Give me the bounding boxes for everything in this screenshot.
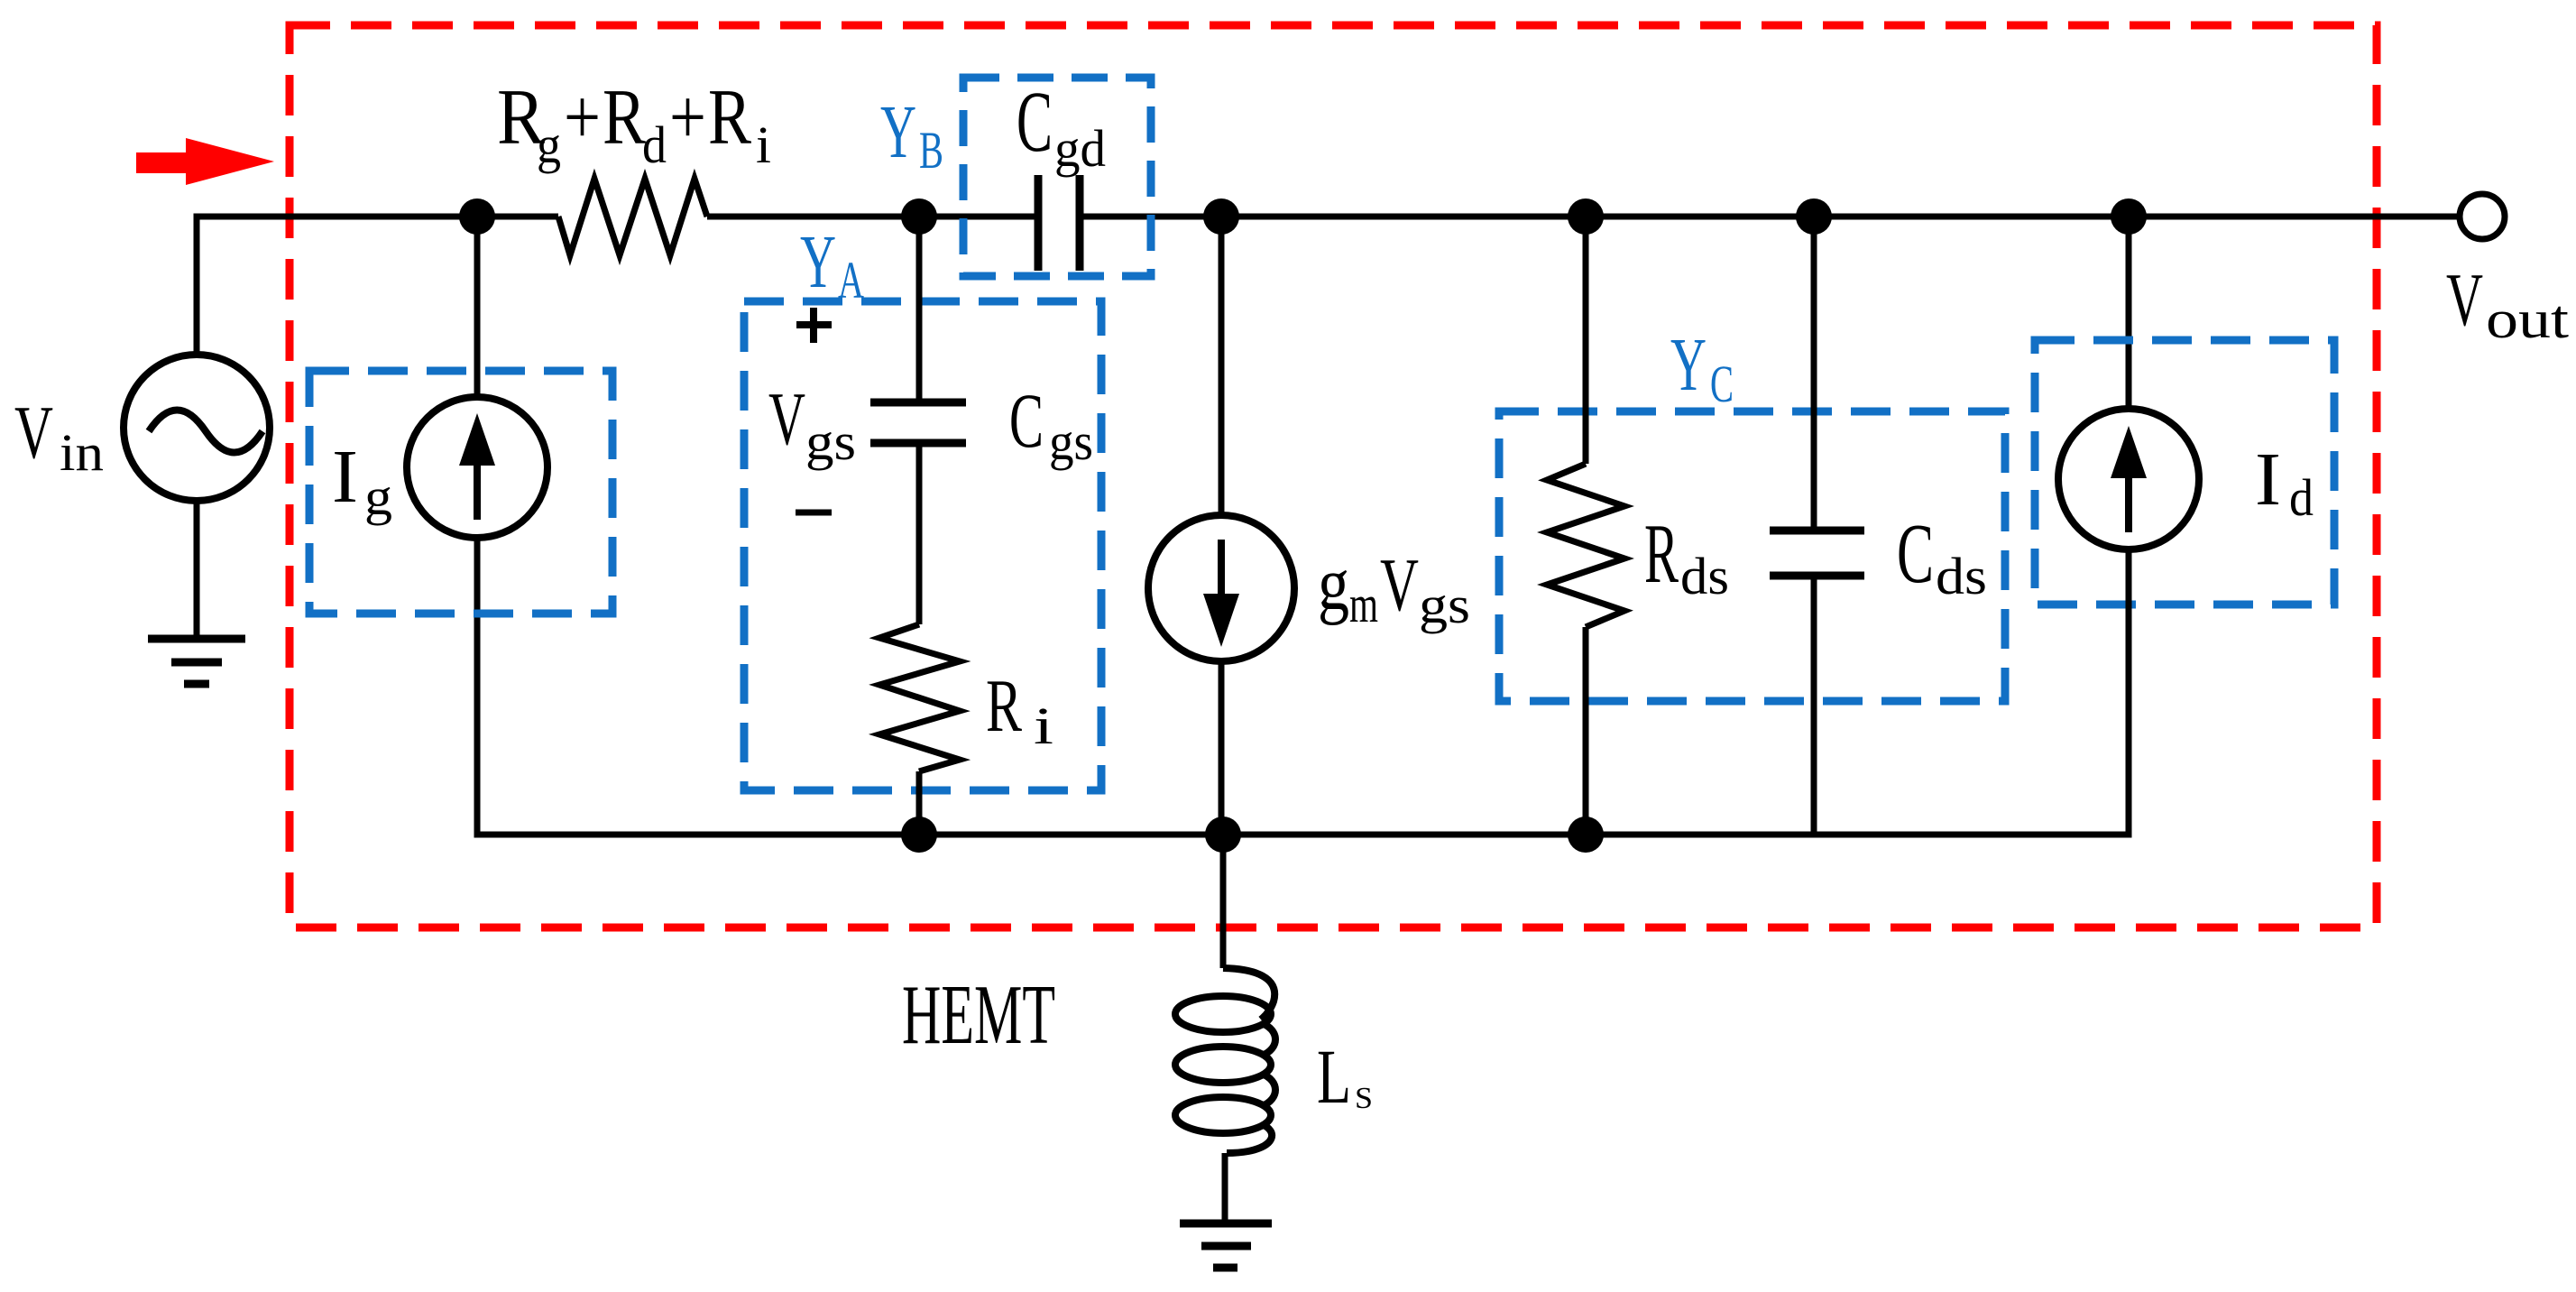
svg-text:C: C <box>1017 73 1053 170</box>
resistor Ri <box>879 624 960 771</box>
svg-text:Y: Y <box>1670 323 1707 407</box>
blue dashed box YA <box>744 301 1101 790</box>
svg-text:Y: Y <box>880 90 916 174</box>
svg-text:ds: ds <box>1936 547 1987 605</box>
svg-text:g: g <box>1318 542 1349 626</box>
svg-text:i: i <box>1034 697 1053 755</box>
svg-text:gd: gd <box>1054 119 1106 178</box>
svg-text:I: I <box>2255 438 2281 521</box>
capacitor Cds <box>1770 531 1864 576</box>
node Rds top <box>1568 198 1604 235</box>
minus sign <box>796 510 832 516</box>
svg-text:S: S <box>1355 1082 1373 1115</box>
source Vin <box>124 355 270 501</box>
svg-text:C: C <box>1710 355 1734 413</box>
current source gmVgs <box>1148 515 1294 661</box>
resistor Rg+Rd+Ri <box>558 179 707 255</box>
svg-text:g: g <box>364 467 392 526</box>
blue dashed box YC <box>1499 411 2005 701</box>
node Id top <box>2111 198 2147 235</box>
svg-text:ds: ds <box>1680 547 1729 605</box>
svg-text:V: V <box>2446 258 2483 342</box>
svg-text:I: I <box>332 435 358 519</box>
plus sign <box>796 308 832 343</box>
svg-text:Y: Y <box>800 220 836 304</box>
bottom rail wire <box>477 549 2129 835</box>
terminal Vout <box>2460 194 2505 239</box>
node rail gm/Ls <box>1205 817 1241 853</box>
svg-text:g: g <box>537 115 561 174</box>
svg-text:R: R <box>986 664 1022 748</box>
svg-text:d: d <box>642 115 667 174</box>
capacitor Cgd <box>1038 175 1080 271</box>
wire Ls to ground <box>1222 1153 1228 1223</box>
current source Id <box>2058 409 2199 549</box>
blue dashed box Cgd <box>963 78 1151 276</box>
ground (Ls) <box>1180 1223 1272 1268</box>
svg-text:R: R <box>708 74 751 161</box>
node Cds top <box>1796 198 1832 235</box>
wire gm branch top <box>1219 217 1225 515</box>
svg-text:i: i <box>756 115 771 174</box>
wire Vin vertical <box>194 500 200 639</box>
svg-text:R: R <box>603 74 646 161</box>
svg-text:in: in <box>60 423 104 482</box>
node rail Ri <box>901 817 937 853</box>
svg-text:C: C <box>1897 507 1934 601</box>
wire Cgs to Ri <box>916 443 923 624</box>
svg-text:R: R <box>1644 507 1679 601</box>
wire gm branch bottom <box>1219 661 1225 835</box>
wire Id top <box>2126 217 2132 409</box>
resistor Rds <box>1547 464 1624 627</box>
wire YB down <box>916 217 923 401</box>
wire top main <box>197 217 2460 355</box>
node A top-left <box>459 198 495 235</box>
blue dashed box Ig <box>309 371 612 614</box>
svg-text:V: V <box>1380 543 1419 627</box>
svg-text:V: V <box>14 391 53 475</box>
red dashed boundary box <box>290 25 2377 927</box>
ground (Vin) <box>148 639 245 684</box>
svg-text:HEMT: HEMT <box>902 968 1055 1062</box>
svg-text:+: + <box>564 74 601 161</box>
capacitor Cgs <box>870 402 966 443</box>
svg-text:d: d <box>2289 468 2314 527</box>
wire Rds top <box>1583 217 1589 464</box>
node rail Rds <box>1568 817 1604 853</box>
svg-text:gs: gs <box>1419 576 1470 634</box>
wire Cds top <box>1811 217 1817 527</box>
svg-text:out: out <box>2486 290 2569 349</box>
current source Ig <box>407 397 547 538</box>
svg-text:gs: gs <box>1049 412 1093 471</box>
svg-text:A: A <box>838 251 864 309</box>
node YB <box>901 198 937 235</box>
wire Ri to rail <box>916 771 923 835</box>
svg-text:L: L <box>1317 1033 1351 1120</box>
inductor Ls <box>1175 968 1275 1153</box>
wire Ls top <box>1220 835 1227 968</box>
svg-text:m: m <box>1349 575 1378 633</box>
svg-text:+: + <box>669 74 706 161</box>
svg-text:B: B <box>919 121 943 180</box>
svg-text:C: C <box>1009 377 1044 464</box>
wire Cds bottom <box>1811 576 1817 835</box>
wire Ig branch <box>474 217 481 831</box>
red input arrow <box>136 138 274 185</box>
wire Rds bottom <box>1583 627 1589 835</box>
svg-text:V: V <box>768 377 805 461</box>
svg-text:gs: gs <box>805 412 856 471</box>
blue dashed box Id <box>2035 340 2334 604</box>
node top gm <box>1203 198 1239 235</box>
